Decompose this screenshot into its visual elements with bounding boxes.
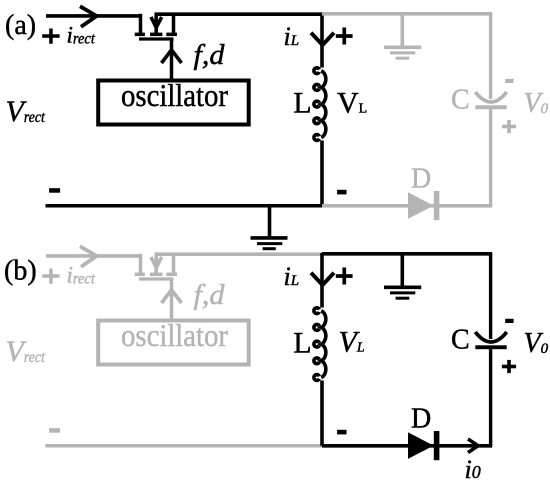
svg-text:oscillator: oscillator bbox=[121, 77, 228, 113]
arrowhead i_rect gray (b) bbox=[80, 246, 97, 266]
arrowhead i_0 right (b) bbox=[468, 439, 478, 453]
diode D cathode bar (b) bbox=[434, 431, 440, 460]
arrowhead i_rect (a) bbox=[80, 6, 97, 27]
transistor M1 source lead (a) bbox=[139, 14, 143, 35]
transistor M1 channel dashes (a) bbox=[135, 33, 177, 37]
inductor L coil (a) bbox=[314, 68, 326, 141]
svg-text:f,d: f,d bbox=[194, 39, 226, 71]
label - (V_L minus, b) bbox=[337, 430, 346, 435]
inductor branch wire top (b) bbox=[320, 253, 324, 308]
wire: bottom-right gray (a) bbox=[322, 204, 492, 208]
ground (b top) bbox=[384, 254, 421, 298]
oscillator box gray (b) bbox=[98, 321, 249, 365]
transistor M1 body lead with down arrow gray (b) bbox=[154, 254, 158, 273]
wire: bottom-right (b) bbox=[322, 444, 492, 448]
svg-text:C: C bbox=[451, 325, 470, 356]
transistor M1 gate bar gray (b) bbox=[139, 277, 174, 280]
transistor M1 channel dashes gray (b) bbox=[135, 273, 177, 277]
label + (rectifier plus, gray b) bbox=[42, 269, 59, 284]
svg-text:C: C bbox=[451, 85, 470, 116]
svg-text:D: D bbox=[411, 403, 431, 434]
wire: right vertical upper gray (a) bbox=[489, 14, 492, 99]
gate drive wire from oscillator gray (b) bbox=[170, 279, 174, 319]
capacitor C curved plate gray (a) bbox=[475, 92, 506, 102]
wire: bottom-left gray (b) bbox=[46, 444, 323, 448]
capacitor C straight plate gray (a) bbox=[475, 105, 506, 109]
svg-text:f,d: f,d bbox=[194, 279, 226, 311]
inductor branch wire bottom (b) bbox=[320, 381, 324, 446]
label + (V_L plus, a) bbox=[336, 28, 353, 45]
svg-text:D: D bbox=[411, 163, 431, 194]
wire: right vertical lower gray (a) bbox=[489, 107, 492, 206]
diode D cathode bar gray (a) bbox=[434, 191, 440, 220]
arrowhead i_L down (a) bbox=[311, 33, 334, 45]
label - (rectifier minus, gray b) bbox=[49, 428, 60, 433]
gate drive arrowhead up gray (b) bbox=[162, 290, 182, 303]
label - (capacitor minus, b) bbox=[505, 319, 513, 323]
wire: top-left gray (b) bbox=[46, 254, 142, 258]
ground gray (a top) bbox=[384, 14, 421, 58]
wire: right vertical upper (b) bbox=[489, 254, 492, 339]
label + (rectifier plus, a) bbox=[42, 29, 59, 44]
wire: top-left (a) bbox=[46, 14, 142, 18]
transistor M1 body lead with down arrow (a) bbox=[154, 14, 158, 33]
transistor M1 gate bar (a) bbox=[139, 37, 174, 40]
wire: top-middle (a) bbox=[155, 12, 323, 16]
arrowhead i_L down (b) bbox=[311, 273, 334, 285]
gate drive wire from oscillator (a) bbox=[170, 39, 174, 79]
label + (capacitor plus, gray a) bbox=[502, 120, 516, 133]
svg-text:L: L bbox=[293, 327, 311, 360]
transistor M1 drain lead gray (b) bbox=[172, 254, 176, 274]
transistor M1 drain lead (a) bbox=[172, 14, 176, 34]
wire: right vertical lower (b) bbox=[489, 347, 492, 446]
label - (V_L minus, a) bbox=[337, 190, 346, 195]
label + (capacitor plus, b) bbox=[502, 360, 516, 373]
wire: bottom-left (a) bbox=[46, 204, 323, 208]
ground (a bottom) bbox=[251, 206, 288, 249]
gate drive arrowhead up (a) bbox=[162, 50, 182, 63]
diode D triangle (b) bbox=[408, 432, 434, 459]
svg-text:oscillator: oscillator bbox=[121, 317, 228, 353]
label + (V_L plus, b) bbox=[336, 268, 353, 285]
inductor branch wire top (a) bbox=[320, 13, 324, 68]
inductor L coil (b) bbox=[314, 308, 326, 381]
transistor M1 source lead gray (b) bbox=[139, 254, 143, 274]
wire: top-right gray (a) bbox=[322, 12, 492, 16]
wire: top-middle gray (b) bbox=[155, 252, 323, 256]
oscillator box (a) bbox=[98, 81, 249, 125]
wire: top-right (b) bbox=[322, 252, 492, 256]
svg-text:L: L bbox=[293, 87, 311, 120]
capacitor C straight plate (b) bbox=[475, 345, 506, 349]
label - (capacitor minus, gray a) bbox=[505, 79, 513, 83]
label - (rectifier minus, a) bbox=[49, 188, 60, 193]
capacitor C curved plate (b) bbox=[475, 332, 506, 342]
diode D triangle gray (a) bbox=[408, 192, 434, 219]
svg-text:(b): (b) bbox=[4, 256, 37, 287]
inductor branch wire bottom (a) bbox=[320, 141, 324, 206]
svg-text:(a): (a) bbox=[5, 10, 36, 41]
